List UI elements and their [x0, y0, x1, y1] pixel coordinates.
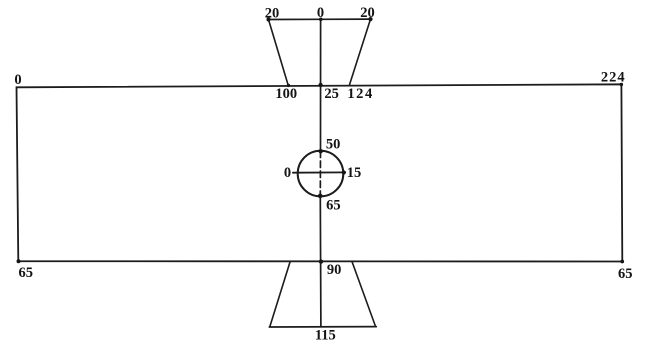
svg-text:65: 65 — [326, 198, 341, 214]
top trapezoid left leg — [269, 20, 289, 86]
top trapezoid right leg — [350, 19, 371, 85]
svg-text:65: 65 — [19, 265, 34, 281]
dot circle bottom — [318, 194, 323, 199]
dot top line left end — [266, 17, 270, 21]
dot left leg at rect top — [287, 84, 290, 87]
svg-text:65: 65 — [618, 266, 633, 282]
dot rect top-right corner — [620, 83, 623, 86]
svg-text:20: 20 — [265, 5, 280, 21]
svg-text:0: 0 — [14, 72, 21, 88]
dot center line at rect top — [318, 83, 322, 87]
svg-text:90: 90 — [327, 262, 342, 278]
dot center line at rect bottom — [319, 259, 323, 263]
bottom trapezoid left leg — [270, 261, 290, 326]
svg-text:0: 0 — [284, 165, 291, 181]
vertical center line lower — [319, 196, 322, 327]
dot diameter right end — [342, 170, 346, 174]
circle — [298, 151, 344, 197]
dot circle top — [319, 149, 323, 153]
circle horizontal diameter — [293, 171, 345, 173]
dot top line right end — [368, 17, 372, 21]
plate rectangle — [17, 84, 623, 261]
vertical center line dashed in circle — [319, 151, 321, 196]
dot rect bottom-right corner — [620, 260, 624, 264]
bottom trapezoid right leg — [352, 262, 376, 327]
svg-text:224: 224 — [601, 70, 626, 86]
vertical center line upper — [320, 19, 322, 151]
svg-text:124: 124 — [347, 86, 374, 102]
svg-text:0: 0 — [317, 5, 324, 21]
svg-text:25: 25 — [324, 86, 339, 102]
svg-text:20: 20 — [360, 5, 375, 21]
bottom trapezoid bottom line — [269, 326, 376, 328]
dot top line center — [319, 18, 323, 22]
top trapezoid top line — [269, 18, 371, 20]
svg-text:100: 100 — [275, 86, 297, 102]
dot rect bottom-left corner — [17, 259, 21, 263]
svg-text:50: 50 — [326, 137, 341, 153]
svg-text:15: 15 — [347, 165, 362, 181]
svg-text:115: 115 — [315, 328, 336, 341]
